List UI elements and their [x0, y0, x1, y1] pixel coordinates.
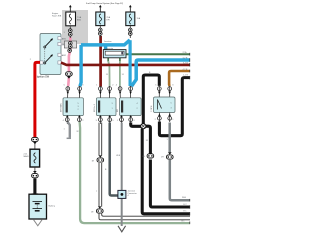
relay box4 (circuit opening relay) — [151, 97, 175, 113]
wire white (double line) from box2 — [99, 123, 190, 220]
wire sage green L to ECM bottom — [80, 122, 190, 223]
fusible link FL MAIN — [24, 149, 40, 167]
inline connector on red wire — [32, 137, 39, 150]
svg-text:7.5A: 7.5A — [77, 16, 82, 19]
wire green junction to ECM — [126, 53, 190, 55]
svg-text:EFI: EFI — [107, 19, 111, 21]
svg-text:4-2 B: 4-2 B — [183, 69, 188, 71]
wire gray W-B from box4 right pin to ECM — [170, 123, 190, 201]
battery ground chevron — [34, 220, 42, 226]
maroon terminal box2 — [99, 87, 103, 91]
relay box2 — [94, 98, 116, 116]
svg-text:Junction: Junction — [104, 40, 111, 43]
connector pair below fuse AM2 — [64, 27, 73, 39]
wire black pi-shape to circuit opening relay — [143, 75, 159, 124]
wire cyan EFI feed upper horizontal — [80, 40, 190, 86]
junction connector (flat) — [103, 40, 126, 58]
box3 right bottom — [129, 118, 133, 122]
power arrow above fuse AM2 — [69, 5, 72, 12]
svg-text:C.OPN: C.OPN — [151, 105, 153, 112]
svg-text:Room R/B: Room R/B — [52, 15, 62, 17]
inline connector on black branch — [142, 154, 154, 158]
connector pair below fuse EFI No.2 — [99, 26, 103, 38]
svg-text:W-B: W-B — [182, 197, 187, 199]
inline connector on white wire (lower) — [91, 206, 103, 213]
svg-text:Connector: Connector — [104, 47, 114, 50]
relay box1 (EFI main relay) — [60, 98, 84, 116]
box1 right bottom — [78, 118, 82, 122]
black terminal box4 — [157, 87, 161, 91]
terminal circles into relay row (top) — [64, 84, 175, 97]
inline connector on white wire (upper) — [92, 155, 104, 162]
cyan terminal box1 — [78, 87, 82, 91]
svg-text:W-B: W-B — [116, 155, 121, 157]
bottom terminal circles of relay row — [63, 113, 175, 125]
wire red battery feed from ignition switch — [35, 62, 40, 137]
svg-text:Battery: Battery — [49, 205, 55, 208]
svg-text:22 A: 22 A — [183, 51, 188, 54]
wire cyan lower horizontal to ECM — [132, 60, 191, 86]
relay block panel (gray background) — [62, 10, 88, 44]
sage terminal box2 — [108, 87, 112, 91]
junction square connector — [118, 190, 137, 199]
svg-text:EFI No.2: EFI No.2 — [94, 103, 96, 112]
fuse AM2 — [66, 12, 82, 26]
wire black from junction down to ECM (outer) — [142, 129, 190, 214]
wire maroon IG2 horizontal to ECM — [61, 63, 190, 65]
wire brown to ECM — [169, 71, 190, 86]
svg-text:Fuel Pump Control System (See: Fuel Pump Control System (See Page 52) — [86, 2, 123, 5]
wire dark slate from box2 right pin to junction square — [110, 123, 118, 196]
connector box on pink wire — [62, 41, 77, 52]
sage terminal box3 — [118, 87, 122, 91]
fuse EFI No.2 — [96, 12, 111, 26]
inline connector on gray wire — [161, 152, 173, 159]
svg-text:MAIN: MAIN — [24, 155, 30, 158]
wire sage green pair below junction connector — [107, 58, 109, 62]
connector pair below fuse EFI — [129, 26, 133, 38]
battery — [29, 194, 55, 219]
svg-text:Ignition SW: Ignition SW — [37, 75, 50, 78]
black elbow from box3 right pin to junction — [131, 123, 141, 127]
box2 right bottom — [108, 118, 112, 122]
pink terminal box1 — [66, 87, 70, 91]
splice junction circle — [141, 124, 146, 129]
svg-text:1G: 1G — [142, 156, 145, 158]
svg-text:EFI: EFI — [117, 108, 119, 112]
wire black from junction right branch to ECM — [146, 126, 190, 207]
power arrow above fuse EFI — [129, 5, 132, 12]
svg-text:3-2 B: 3-2 B — [183, 58, 188, 60]
box1 left bottom — [65, 118, 69, 122]
svg-text:3-2 A: 3-2 A — [183, 62, 188, 65]
relay box3 — [117, 98, 141, 116]
power arrow above fuse EFI No.2 — [99, 5, 102, 12]
wire black ECM stub (right edge) — [159, 78, 190, 136]
wire maroon EFI No.2 feed (vertical) — [99, 36, 102, 87]
fuse EFI — [126, 12, 141, 26]
svg-text:1J: 1J — [106, 74, 108, 76]
svg-text:1-1 B: 1-1 B — [183, 74, 188, 76]
ignition switch — [37, 34, 67, 79]
wire gray from box3 left pin down through junction square to ground — [121, 123, 123, 227]
box2 left bottom — [99, 118, 103, 122]
wire black battery positive — [33, 179, 36, 196]
svg-text:EFI MAIN: EFI MAIN — [60, 103, 63, 112]
box4 right bottom — [168, 116, 172, 120]
cyan merge terminal box3 — [129, 87, 133, 91]
box3 left bottom — [120, 118, 124, 122]
svg-text:1J: 1J — [122, 74, 124, 76]
inline connector IF1 on pink wire — [66, 72, 73, 79]
inline connector below fusible link — [32, 167, 39, 180]
stub wire below box1 left pin — [64, 122, 72, 139]
ground chevron (body ground) — [118, 226, 126, 232]
svg-text:Connector: Connector — [128, 192, 138, 195]
brown terminal box4 — [168, 87, 172, 91]
box4 left bottom — [158, 116, 162, 120]
wire pink AM2 feed — [69, 37, 70, 72]
